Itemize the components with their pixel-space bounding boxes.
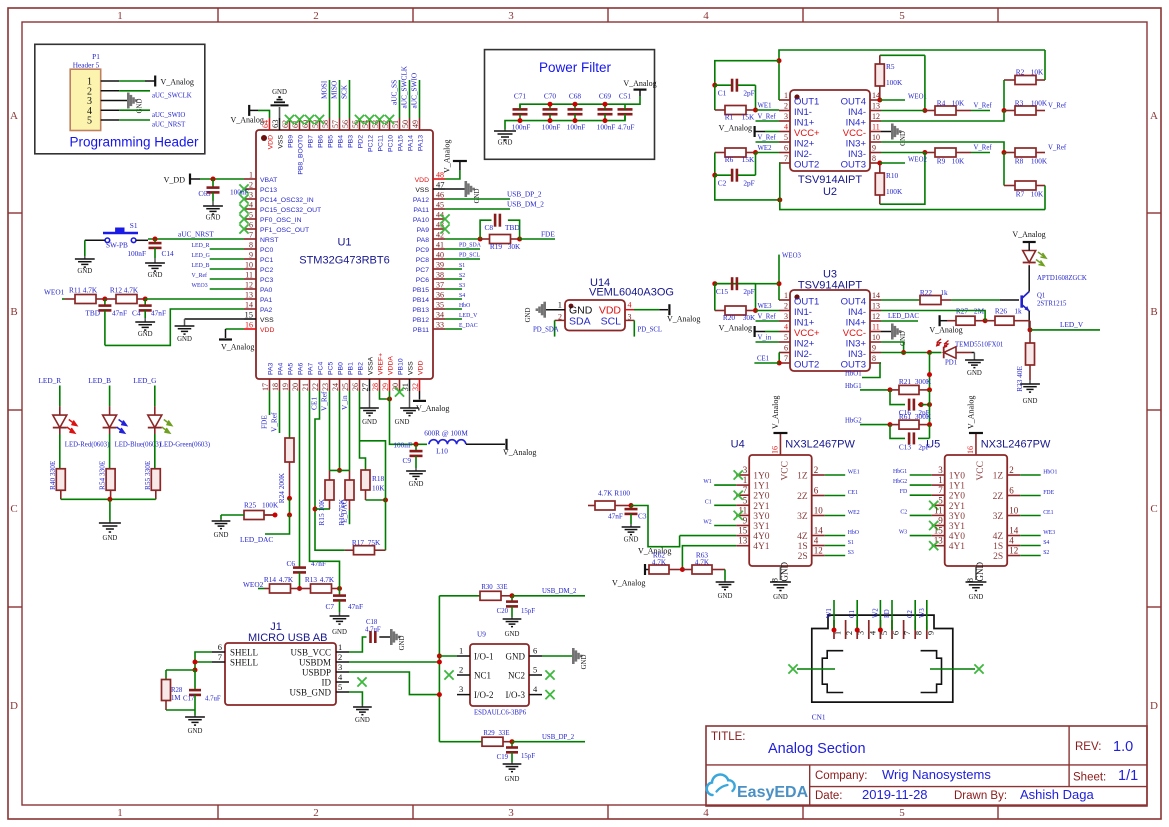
svg-text:PA8: PA8 (417, 237, 430, 244)
svg-text:HbG2: HbG2 (893, 479, 907, 485)
U4 pin 1 1Y1 (736, 475, 770, 492)
svg-text:R24 200K: R24 200K (277, 472, 286, 503)
op-amp U2 pin 5 IN2+ (779, 133, 815, 150)
U4 pin 12 2S (798, 546, 825, 563)
op-amp U2 pin 8 OUT3 (841, 154, 881, 171)
ground GND below U5 (966, 582, 987, 601)
mcu U1 pin 64 VDD (261, 118, 275, 149)
svg-text:CE1: CE1 (1043, 510, 1053, 516)
svg-text:57: 57 (331, 120, 340, 128)
svg-text:1: 1 (938, 475, 943, 485)
wire PD_SDA from U14 (554, 320, 556, 336)
junction U3 OUT1 branch (777, 281, 782, 300)
net label LED_DAC U3 (888, 313, 919, 320)
svg-text:R61: R61 (899, 412, 912, 421)
ground GND at P1 pin3 (127, 93, 144, 114)
op-amp U2 pin 6 IN2- (779, 144, 812, 161)
svg-text:56: 56 (341, 120, 350, 128)
svg-text:12: 12 (872, 312, 880, 321)
svg-text:PB7: PB7 (308, 135, 315, 148)
frame column ticks bottom (218, 805, 998, 819)
capacitor C6 47nF (286, 559, 326, 589)
resistor R15 10K (317, 470, 334, 525)
wire S1 from U4 pin 4 (825, 545, 846, 547)
wire FDE from R19 (520, 238, 555, 240)
svg-text:IN1+: IN1+ (794, 318, 815, 329)
svg-text:3: 3 (628, 313, 632, 322)
wire U1 pin28 VREF+ join VDDA (380, 391, 390, 399)
U4 pin 14 4Z (797, 526, 825, 543)
U4 pin 7 2Y0 (736, 485, 770, 502)
svg-text:R19: R19 (490, 242, 503, 251)
resistor R6 15K (715, 148, 756, 164)
svg-text:HbO1: HbO1 (845, 371, 862, 378)
wire J1 USBDP to U9 (349, 672, 439, 695)
svg-text:LED_G: LED_G (192, 253, 210, 259)
svg-text:VCC-: VCC- (843, 328, 866, 339)
svg-text:VSS: VSS (408, 361, 415, 375)
ground GND below C20 (503, 617, 522, 638)
svg-text:V_Analog: V_Analog (771, 396, 780, 429)
sensor U14 pin 2 SDA (555, 313, 591, 328)
net label WEO3 (192, 283, 208, 289)
mcu U1 pin 13 PA1 (244, 291, 273, 305)
P1 pin 2 (87, 86, 119, 97)
svg-text:GND: GND (1023, 398, 1038, 405)
svg-text:VCC-: VCC- (843, 128, 866, 139)
svg-text:100K: 100K (886, 78, 903, 87)
mcu U1 body (256, 130, 433, 379)
resistor R10 100K (875, 153, 925, 205)
mcu U1 pin 28 VREF+ (371, 353, 385, 391)
svg-text:PB14: PB14 (412, 297, 429, 304)
wire R28 C17 bottom join (166, 710, 195, 715)
P1 pin 1 (87, 77, 119, 88)
svg-text:14: 14 (872, 291, 880, 300)
svg-text:R54 330E: R54 330E (98, 460, 107, 490)
svg-text:10: 10 (872, 333, 880, 342)
svg-text:PB3: PB3 (348, 135, 355, 148)
svg-text:100nF: 100nF (597, 123, 616, 132)
mcu U1 pin 30 PB10 (391, 358, 405, 391)
wire CE1 stub U3 pin7 (754, 362, 779, 364)
capacitor C2 2pF (712, 153, 755, 188)
svg-text:C6: C6 (286, 559, 295, 568)
op-amp U3 pin 12 IN4+ (846, 312, 881, 329)
no-connect U9 I/O-3 (545, 690, 554, 699)
svg-text:GND: GND (975, 562, 985, 582)
svg-text:V_Analog: V_Analog (966, 396, 975, 429)
svg-text:GND: GND (773, 594, 788, 601)
resistor R55 (143, 460, 161, 499)
wire FD to CN1 (891, 600, 893, 630)
svg-text:VEML6040A3OG: VEML6040A3OG (589, 287, 674, 299)
J1 pin 7 SHELL (212, 652, 258, 668)
mcu U1 pin 38 PC6 (416, 271, 445, 285)
svg-text:4.7K: 4.7K (652, 558, 667, 567)
mcu U1 pin 8 PC0 (244, 241, 273, 255)
no-connect U1 pin30 PB10 (395, 387, 404, 396)
mcu U1 pin 51 PA15 (391, 118, 405, 151)
svg-text:R14: R14 (264, 575, 277, 584)
junction R29 C19 (510, 739, 515, 744)
svg-text:GND: GND (395, 419, 410, 426)
net label PD_SCL (459, 253, 480, 259)
wire HbO from U4 pin 14 (825, 535, 846, 537)
svg-text:2pF: 2pF (743, 287, 754, 296)
mcu U1 pin 27 VSSA (360, 356, 375, 391)
svg-text:USB_DM_2: USB_DM_2 (507, 200, 544, 209)
wire R63 to ground (724, 570, 726, 581)
wire J1 shell pins to R28 C17 (166, 652, 212, 680)
ground GND at U9 pin6 (572, 648, 588, 669)
net label W2 vertical (872, 608, 879, 618)
svg-text:WEO3: WEO3 (192, 283, 208, 289)
svg-text:OUT2: OUT2 (794, 360, 819, 371)
connector P1 body (70, 69, 101, 130)
svg-text:HbG1: HbG1 (845, 383, 862, 390)
svg-text:1Z: 1Z (993, 472, 1004, 482)
wire U1 net stub WEO3 (210, 288, 244, 290)
svg-text:7: 7 (938, 485, 943, 495)
svg-text:3: 3 (508, 10, 514, 22)
op-amp U2 pin 10 IN3+ (846, 133, 881, 150)
svg-text:V_Ref: V_Ref (758, 135, 777, 142)
svg-text:C2: C2 (907, 609, 914, 618)
svg-text:2pF: 2pF (743, 89, 754, 98)
wire R12 to U1 pin13 (145, 298, 244, 300)
svg-text:15K: 15K (742, 155, 755, 164)
wire V_Ref stub R9 (971, 152, 990, 154)
svg-text:16: 16 (245, 321, 253, 330)
wire LED_DAC (265, 515, 290, 534)
svg-text:ESDAULC6-3BP6: ESDAULC6-3BP6 (474, 710, 527, 717)
svg-text:USB_DP_2: USB_DP_2 (507, 190, 542, 199)
op-amp U3 pin 7 OUT2 (779, 354, 819, 371)
wire E_DAC stub (445, 328, 462, 330)
wire V_Ref stub U2 pin3 (756, 120, 780, 122)
svg-text:U4: U4 (731, 439, 745, 451)
sensor U14 body (565, 300, 625, 331)
svg-text:4.7K: 4.7K (279, 575, 294, 584)
net label V_Ref R8 (1048, 145, 1067, 152)
mcu U1 pin 33 PB11 (413, 321, 445, 335)
svg-text:24: 24 (331, 383, 340, 391)
svg-text:GND: GND (214, 532, 229, 539)
junction R21 left (888, 387, 893, 392)
svg-text:TEMD5510FX01: TEMD5510FX01 (955, 342, 1003, 349)
wire V_Ref stub U2 pin5 (756, 141, 780, 143)
net label PD_SDA (459, 243, 482, 249)
resistor R16 75K (337, 470, 354, 525)
svg-text:7: 7 (784, 354, 788, 363)
wire U1 net stub LED_B (210, 268, 244, 270)
svg-text:PA15: PA15 (398, 135, 405, 151)
svg-text:V_Analog: V_Analog (612, 579, 645, 588)
ground GND power filter (494, 129, 516, 147)
U5 pin 5 2Y1 (932, 495, 966, 512)
svg-text:100nF: 100nF (542, 123, 561, 132)
svg-text:CE1: CE1 (848, 490, 858, 496)
junction OUT1 branch (777, 58, 782, 100)
svg-text:10K: 10K (372, 484, 385, 493)
mcu U1 pin 56 PB3 (341, 118, 355, 148)
svg-text:LED_G: LED_G (133, 376, 157, 385)
svg-text:VDD: VDD (599, 305, 622, 317)
junction C15 left (712, 281, 717, 310)
svg-text:GND: GND (332, 629, 347, 636)
capacitor C71 100nF (512, 92, 531, 132)
svg-text:2: 2 (459, 665, 463, 675)
ground GND below C7 (330, 612, 350, 636)
resistor R2 10K (1004, 50, 1045, 85)
svg-text:7: 7 (218, 652, 222, 662)
svg-text:40: 40 (436, 251, 444, 260)
mcu U1 pin 1 VBAT (244, 171, 277, 185)
svg-text:V_Ref: V_Ref (1048, 103, 1067, 110)
capacitor C65 100nF (198, 179, 248, 201)
mcu U1 pin 5 PF0_OSC_IN (244, 211, 302, 225)
resistor R20 30K (715, 306, 756, 322)
svg-text:Analog Section: Analog Section (768, 741, 866, 757)
svg-text:W3: W3 (919, 608, 926, 618)
wire Q1 collector to led (1028, 266, 1030, 292)
wire R18 bottom to node (366, 499, 386, 501)
svg-text:R11: R11 (69, 286, 81, 295)
no-connect marks U1 pins 2-6 (239, 184, 248, 233)
net label LED_R (192, 243, 210, 249)
wire OUT2 bottom rail (779, 163, 1045, 210)
svg-text:R55 330E: R55 330E (143, 460, 152, 490)
wire V_in stub U3 pin5 (756, 341, 780, 343)
resistor R28 1M (162, 680, 183, 711)
svg-text:1: 1 (117, 807, 123, 819)
svg-text:PB15: PB15 (412, 287, 429, 294)
svg-text:PA13: PA13 (418, 135, 425, 151)
svg-text:R9: R9 (937, 157, 946, 166)
svg-text:aUC_NRST: aUC_NRST (178, 230, 214, 239)
svg-text:HbO1: HbO1 (1043, 470, 1057, 476)
frame row ticks right (1147, 213, 1161, 607)
svg-text:29: 29 (381, 383, 390, 391)
svg-text:R30: R30 (481, 584, 493, 591)
CN1 pin 4 (867, 620, 877, 639)
svg-text:GND: GND (779, 562, 789, 582)
resistor R29 33E (482, 730, 512, 746)
P1 pin 5 (87, 116, 119, 127)
svg-text:LED_R: LED_R (38, 376, 61, 385)
wire HbG1 to U5 pin 3 (910, 474, 932, 476)
U4 pin 9 3Y1 (736, 516, 770, 533)
U5 pin 12 2S (993, 546, 1020, 563)
wire IN3+ to photodiode node (881, 342, 904, 353)
net label HbG1 (845, 383, 862, 390)
svg-text:4.7uF: 4.7uF (618, 123, 635, 132)
svg-text:V_Ref: V_Ref (192, 272, 208, 279)
J1 pin 1 USB_VCC (290, 642, 349, 658)
ground GND below C17 (185, 715, 205, 735)
svg-text:SHELL: SHELL (230, 648, 258, 658)
svg-text:6: 6 (218, 642, 222, 652)
svg-text:R10: R10 (886, 171, 899, 180)
U5 pin 3 1Y0 (932, 465, 966, 482)
wire aUC_SWCLK (409, 80, 411, 118)
U5 pin 8 GND (965, 562, 985, 583)
svg-text:PC15_OSC32_OUT: PC15_OSC32_OUT (260, 207, 321, 214)
svg-text:5: 5 (743, 495, 748, 505)
svg-text:10: 10 (872, 133, 880, 142)
svg-text:4: 4 (249, 201, 253, 210)
svg-text:C68: C68 (569, 92, 582, 101)
junction C9 node (414, 442, 419, 447)
svg-text:3Y1: 3Y1 (753, 522, 770, 532)
svg-text:4: 4 (784, 323, 788, 332)
led APTD1608ZGCK (1023, 251, 1087, 283)
wire W2 to U4 pin 9 (714, 525, 736, 527)
svg-text:PD_SDA: PD_SDA (459, 243, 482, 249)
mcu U1 pin 44 PA10 (413, 211, 445, 225)
svg-text:GND: GND (969, 594, 984, 601)
svg-text:10: 10 (245, 261, 253, 270)
mcu U1 pin 15 VSS (244, 310, 274, 325)
wire U1 pin25 to rail (349, 391, 351, 470)
svg-text:PC7: PC7 (416, 267, 429, 274)
svg-text:12: 12 (1009, 546, 1018, 556)
connector CN1 left clip (822, 651, 843, 693)
svg-text:5: 5 (784, 333, 788, 342)
svg-text:VBAT: VBAT (260, 177, 277, 184)
svg-text:4: 4 (867, 630, 877, 635)
svg-text:3: 3 (508, 807, 514, 819)
svg-text:GND: GND (581, 655, 588, 670)
net label V_Ref R3 (1048, 103, 1067, 110)
svg-text:VCC: VCC (976, 461, 986, 481)
wire WEO2 from U2 pin8 (880, 162, 905, 164)
svg-text:FDE: FDE (1043, 490, 1054, 496)
svg-text:VSS: VSS (278, 135, 285, 149)
connector CN1 reference label (812, 713, 826, 722)
svg-text:6: 6 (891, 631, 901, 635)
wire U1 pin24 to rail (337, 391, 342, 473)
svg-text:100nF: 100nF (230, 188, 249, 197)
svg-text:VCC+: VCC+ (794, 128, 820, 139)
svg-text:4.7uF: 4.7uF (205, 696, 221, 703)
svg-text:100nF: 100nF (512, 123, 531, 132)
net label WE3 (758, 303, 773, 310)
op-amp U2 part number (798, 174, 862, 186)
resistor R21 300K (890, 377, 932, 394)
wire LED to resistor (109, 434, 111, 469)
svg-text:C13: C13 (899, 443, 912, 452)
svg-text:11: 11 (245, 271, 253, 280)
resistor R26 1k (985, 307, 1030, 330)
pushbutton S1 SW-PB (103, 221, 138, 250)
U5 pin 10 3Z (993, 506, 1021, 523)
resistor R63 4.7K (682, 551, 725, 575)
op-amp U3 pin 1 OUT1 (779, 291, 819, 308)
svg-text:WEO3: WEO3 (782, 253, 801, 260)
svg-text:4: 4 (703, 807, 709, 819)
svg-text:3: 3 (338, 662, 342, 672)
wire WE2 from U4 pin 10 (825, 515, 846, 517)
svg-text:PC13: PC13 (260, 187, 277, 194)
U5 pin 6 2Z (993, 486, 1021, 503)
svg-text:4.7K R100: 4.7K R100 (598, 489, 630, 498)
net flag V_Analog at U5 VCC (966, 396, 983, 433)
svg-text:S3: S3 (459, 283, 465, 289)
svg-text:1Y0: 1Y0 (949, 472, 966, 482)
svg-text:OUT1: OUT1 (794, 297, 819, 308)
wire HbO1 stub from U3 OUT3 (862, 363, 881, 378)
svg-text:I/O-2: I/O-2 (474, 690, 494, 700)
svg-text:R29: R29 (483, 730, 495, 737)
svg-text:FD: FD (884, 609, 891, 618)
svg-text:C1: C1 (705, 499, 712, 505)
junction R1 right (753, 108, 779, 113)
svg-text:SCK: SCK (340, 84, 349, 99)
svg-text:IN4-: IN4- (848, 307, 866, 318)
wire R5 to IN4- node (924, 55, 926, 110)
svg-text:4.7K: 4.7K (83, 286, 98, 295)
svg-text:49: 49 (411, 120, 420, 128)
svg-text:IN4+: IN4+ (846, 318, 867, 329)
svg-text:3: 3 (784, 112, 788, 121)
svg-text:47nF: 47nF (608, 512, 623, 521)
net label aUC_SS (390, 80, 399, 105)
wire C15 loop left (715, 283, 779, 285)
mcu U1 pin 31 VSS (400, 361, 415, 392)
ground GND at U3 pin11 VCC- (881, 324, 907, 346)
svg-text:R20: R20 (723, 313, 736, 322)
svg-text:aUC_SS: aUC_SS (390, 80, 399, 105)
wire U1 net stub V_Ref (210, 278, 244, 280)
svg-text:R5: R5 (886, 62, 895, 71)
ground GND below S1 (75, 256, 95, 275)
svg-text:aUC_NRST: aUC_NRST (152, 122, 186, 129)
op-amp U2 pin 11 VCC- (843, 123, 881, 140)
svg-text:IN1-: IN1- (794, 107, 812, 118)
svg-text:PC10: PC10 (388, 135, 395, 152)
junction IN4- node (881, 108, 927, 113)
net label S3 (459, 283, 465, 289)
mcu U1 reference designator (337, 237, 351, 249)
svg-text:PB13: PB13 (412, 307, 429, 314)
svg-text:L10: L10 (436, 447, 448, 456)
svg-text:4.7K: 4.7K (320, 575, 335, 584)
wire W3 to U5 pin 15 (910, 535, 932, 537)
junction R3 node (1002, 108, 1007, 113)
net label WEO2 (243, 580, 264, 589)
mcu U1 pin 45 PA11 (413, 201, 445, 215)
svg-text:U1: U1 (337, 237, 351, 249)
U4 pin 4 1S (798, 536, 825, 553)
no-connect U4 pin 11 (734, 511, 743, 520)
mcu U1 pin 6 PF1_OSC_OUT (244, 221, 309, 235)
svg-text:2S: 2S (993, 552, 1003, 562)
wire rail to R30 (439, 595, 480, 597)
svg-text:TBD: TBD (85, 309, 100, 318)
title block REV label (1075, 741, 1101, 753)
svg-text:3Z: 3Z (993, 512, 1004, 522)
wire C3 node to U4 pin15 (631, 506, 680, 547)
op-amp U3 pin 11 VCC- (843, 323, 881, 340)
junction R8 node (1002, 150, 1007, 155)
svg-text:4Z: 4Z (993, 532, 1004, 542)
svg-text:15pF: 15pF (521, 608, 535, 615)
svg-text:7: 7 (902, 631, 912, 635)
mcu U1 pin 58 PB5 (321, 118, 335, 148)
svg-text:5: 5 (249, 211, 253, 220)
